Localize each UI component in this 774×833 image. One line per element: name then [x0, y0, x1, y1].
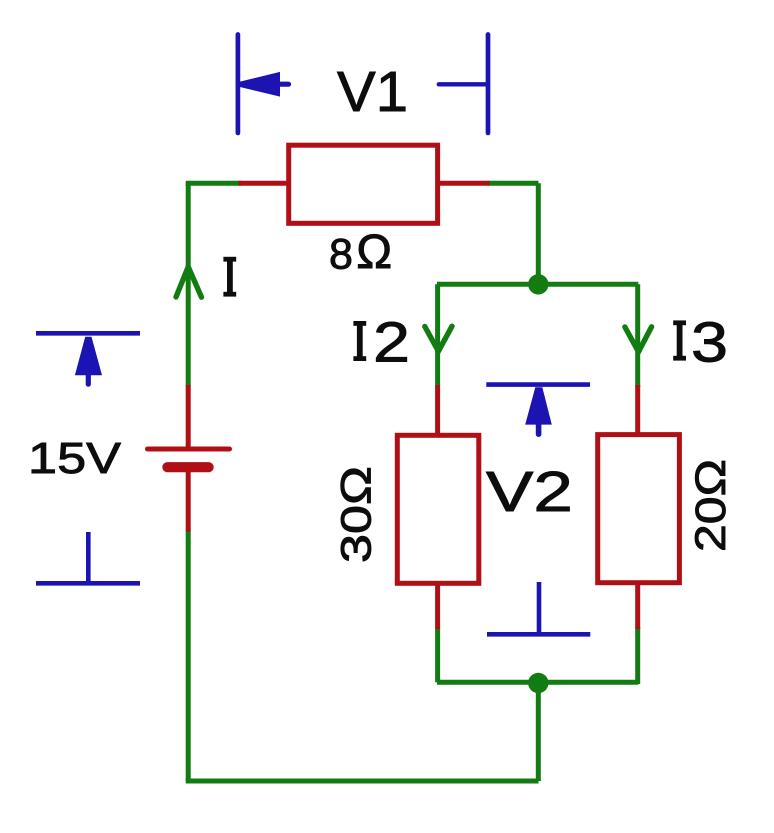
V1 meter arrow tail (blue): [279, 82, 289, 87]
wire: left vertical upper (green): [186, 183, 191, 387]
resistor R1 lead left (red): [239, 181, 291, 186]
15V meter arrowhead (blue): [75, 337, 102, 376]
resistor R3 lead top (red): [635, 385, 640, 437]
wire: right vertical into rail (green): [536, 183, 541, 284]
V1 meter right tail (blue): [439, 82, 487, 86]
resistor R2 30ohm body: [397, 435, 479, 583]
resistor R2 lead bottom (red): [435, 581, 440, 629]
wire: junction drop (green): [536, 683, 541, 781]
svg-text:2: 2: [373, 310, 410, 374]
resistor R1 8ohm body: [289, 145, 438, 223]
V2 meter arrow tail (blue): [536, 425, 542, 434]
label I: [223, 257, 236, 297]
arrow I (green up chevron): [176, 267, 202, 297]
15V meter bottom stem (blue): [86, 532, 91, 583]
resistor R3 20ohm body: [598, 435, 680, 583]
battery negative plate: [167, 462, 208, 472]
svg-text:Ω: Ω: [356, 226, 392, 279]
svg-text:8: 8: [329, 230, 353, 278]
wire: top-left horizontal (green): [186, 181, 241, 186]
svg-text:15V: 15V: [28, 434, 122, 483]
resistor R3 lead bottom (red): [635, 580, 640, 629]
battery lead lower (red): [186, 467, 191, 532]
V1 meter left bracket line (blue): [236, 35, 241, 134]
svg-text:V1: V1: [337, 60, 408, 124]
node junction dot top: [528, 274, 548, 294]
wire: bottom rail of parallel pair (green): [437, 680, 638, 685]
V1 meter right bracket line (blue): [486, 35, 491, 134]
V2 meter arrowhead (blue): [525, 387, 552, 424]
15V meter bottom bar (blue): [36, 581, 140, 586]
V2 meter bottom stem (blue): [537, 582, 542, 634]
wire: left vertical lower (green): [186, 530, 191, 781]
arrow I3 (green down chevron): [625, 327, 652, 352]
resistor R1 lead right (red): [438, 181, 490, 186]
svg-text:30Ω: 30Ω: [333, 466, 381, 563]
15V meter arrow tail (blue): [86, 375, 91, 384]
wire: right branch lower (green): [635, 627, 640, 684]
wire: left branch down (green): [435, 284, 440, 387]
label I3: [673, 320, 686, 360]
V2 meter bottom bar (blue): [487, 632, 590, 637]
arrow I2 (green down chevron): [425, 326, 452, 351]
15V meter top bar (blue): [36, 331, 140, 336]
wire: bottom horizontal (green): [186, 779, 539, 784]
node junction dot bottom: [528, 673, 548, 693]
svg-text:V2: V2: [486, 460, 573, 524]
V1 meter arrowhead (blue): [240, 72, 280, 97]
svg-text:3: 3: [691, 310, 728, 374]
battery positive plate: [148, 447, 230, 452]
wire: left branch lower (green): [435, 627, 440, 682]
svg-text:20Ω: 20Ω: [687, 459, 735, 552]
wire: right branch down (green): [635, 284, 640, 387]
label I2: [353, 321, 366, 361]
wire: top rail of parallel pair (green): [437, 282, 638, 287]
V2 meter top bar (blue): [486, 382, 590, 387]
resistor R2 lead top (red): [435, 385, 440, 437]
battery V lead upper (red): [186, 385, 191, 449]
wire: top-right horizontal (green): [488, 181, 539, 186]
